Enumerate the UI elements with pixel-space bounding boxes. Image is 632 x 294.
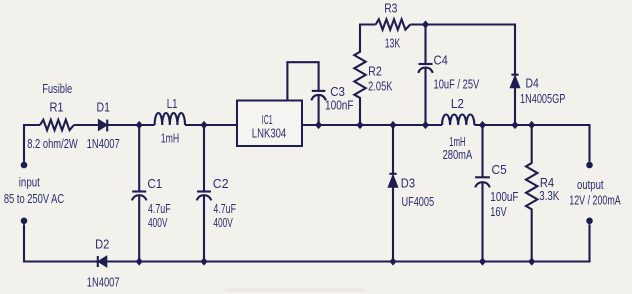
node junction C5 — [479, 121, 486, 129]
svg-text:D1: D1 — [97, 100, 110, 115]
capacitor C2 — [197, 125, 212, 262]
capacitor C4 — [418, 25, 433, 126]
resistor R3 — [376, 19, 411, 29]
wire L1 to IC1 — [185, 124, 237, 126]
svg-text:L1: L1 — [167, 96, 178, 111]
node junction C4 top — [422, 20, 429, 28]
node junction C3/rail — [315, 121, 322, 129]
svg-text:1N4007: 1N4007 — [87, 136, 120, 151]
node junction D4/rail — [511, 121, 518, 129]
node input terminal plus — [21, 162, 28, 169]
svg-text:4.7uF: 4.7uF — [148, 201, 171, 216]
node junction C1/bottom — [136, 257, 143, 265]
svg-text:D2: D2 — [95, 237, 109, 252]
node junction R2 — [356, 121, 363, 129]
shadow smudge bottom — [225, 289, 365, 292]
svg-text:1N4007: 1N4007 — [87, 274, 120, 289]
wire L2 to output corner — [474, 125, 589, 162]
diode D3 — [388, 125, 398, 262]
wire R3 to D4 top — [410, 25, 515, 75]
svg-text:Fusible: Fusible — [42, 81, 72, 96]
node input terminal minus — [21, 218, 28, 225]
wire IC1 top pin loop — [287, 62, 318, 100]
svg-text:8.2 ohm/2W: 8.2 ohm/2W — [27, 136, 78, 151]
node junction R4 — [528, 121, 535, 129]
svg-text:16V: 16V — [490, 204, 507, 219]
svg-text:R3: R3 — [384, 1, 397, 16]
wire bottom rail (output minus to input minus) — [24, 224, 590, 261]
svg-text:400V: 400V — [148, 215, 168, 230]
wire R2 top to R3 — [359, 23, 376, 25]
svg-text:R2: R2 — [368, 64, 382, 79]
resistor R4 — [526, 125, 537, 262]
diode D4 — [510, 75, 520, 125]
svg-text:C4: C4 — [434, 52, 448, 67]
svg-text:13K: 13K — [385, 36, 401, 51]
node junction L1/C2 — [200, 121, 207, 129]
svg-text:280mA: 280mA — [443, 147, 473, 162]
svg-text:UF4005: UF4005 — [401, 194, 434, 209]
svg-text:85 to 250V AC: 85 to 250V AC — [4, 191, 64, 206]
svg-text:D3: D3 — [401, 176, 415, 191]
svg-text:12V / 200mA: 12V / 200mA — [569, 193, 621, 208]
inductor L2 — [442, 114, 474, 125]
svg-text:1N4005GP: 1N4005GP — [520, 91, 565, 106]
node junction C5/bottom — [479, 257, 486, 265]
node junction C4 — [422, 121, 429, 129]
resistor R2 — [354, 25, 365, 126]
wire R1 to D1 — [74, 124, 98, 126]
wire D1 to L1 — [107, 124, 154, 126]
svg-text:100nF: 100nF — [325, 98, 354, 113]
svg-text:10uF / 25V: 10uF / 25V — [434, 76, 480, 91]
IC IC1 LNK304 box — [237, 101, 302, 147]
svg-text:3.3K: 3.3K — [539, 188, 559, 203]
node output terminal plus — [586, 162, 593, 169]
inductor L1 — [155, 113, 185, 125]
svg-text:C2: C2 — [213, 176, 229, 191]
capacitor C5 — [475, 125, 490, 262]
svg-text:D4: D4 — [526, 76, 539, 91]
svg-text:C5: C5 — [492, 162, 507, 177]
node junction R4/bottom — [528, 257, 535, 265]
diode D2 — [98, 256, 107, 267]
svg-text:400V: 400V — [213, 215, 233, 230]
svg-text:4.7uF: 4.7uF — [213, 201, 236, 216]
node junction D3/bottom — [389, 257, 396, 265]
svg-text:output: output — [577, 177, 604, 192]
capacitor C1 — [132, 125, 147, 262]
svg-text:R1: R1 — [49, 100, 63, 115]
node output terminal minus — [586, 218, 593, 225]
wire IC1 output rail — [302, 124, 442, 126]
diode D1 — [98, 120, 107, 132]
node junction D1/C1 — [136, 121, 143, 129]
svg-text:input: input — [19, 175, 40, 190]
svg-text:C1: C1 — [147, 176, 162, 191]
capacitor C3 — [311, 91, 326, 125]
wire input upper terminal to R1 — [24, 125, 40, 162]
svg-text:100uF: 100uF — [490, 189, 518, 204]
svg-text:2.05K: 2.05K — [368, 79, 393, 94]
svg-text:1mH: 1mH — [161, 131, 179, 146]
resistor R1 — [40, 120, 74, 130]
svg-text:LNK304: LNK304 — [252, 126, 286, 141]
svg-text:L2: L2 — [451, 96, 464, 111]
node junction D3 — [389, 121, 396, 129]
node junction C2/bottom — [200, 257, 207, 265]
